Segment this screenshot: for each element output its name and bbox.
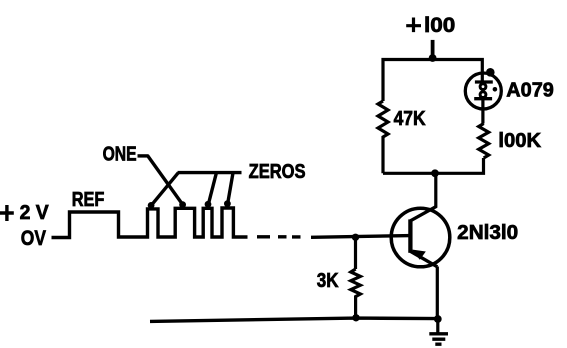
svg-text:ZEROS: ZEROS: [249, 161, 306, 183]
svg-text:A079: A079: [506, 79, 554, 101]
svg-text:OV: OV: [21, 226, 47, 250]
svg-text:l00: l00: [424, 14, 455, 37]
svg-text:ONE: ONE: [103, 144, 137, 166]
svg-text:3K: 3K: [317, 270, 339, 292]
svg-text:2 V: 2 V: [20, 202, 50, 224]
svg-text:2Nl3l0: 2Nl3l0: [457, 222, 518, 244]
svg-text:47K: 47K: [394, 108, 426, 130]
svg-text:REF: REF: [72, 189, 105, 211]
svg-text:l00K: l00K: [498, 130, 541, 152]
